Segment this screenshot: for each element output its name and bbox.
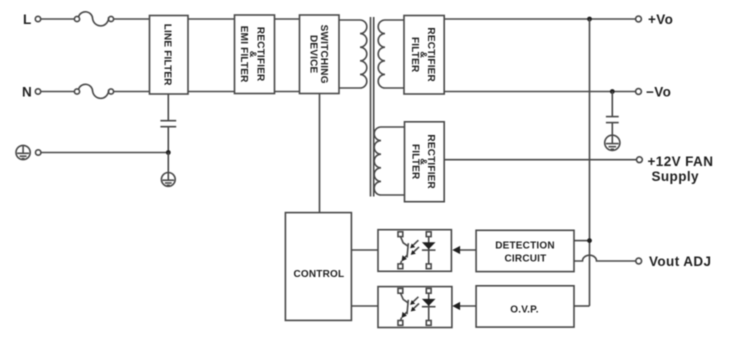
fuse F1 [74, 12, 113, 26]
earth symbol right [605, 135, 620, 150]
optocoupler U2 [378, 287, 452, 328]
svg-text:DETECTION: DETECTION [495, 241, 555, 252]
wire rect/EMI to switching top [275, 18, 300, 20]
wire line filter to rectifier/EMI bottom [188, 91, 235, 93]
block CONTROL [285, 213, 351, 321]
terminal earth [36, 150, 41, 155]
wire control to optocoupler 1 [351, 249, 378, 251]
wire -Vo rail [444, 91, 636, 93]
arrow detection to U1 [452, 246, 476, 254]
block RECTIFIER & FILTER lower [405, 122, 445, 202]
transformer T1 secondary winding 2 [374, 127, 404, 195]
wire line filter to rectifier/EMI top [188, 18, 235, 20]
capacitor C1 lead [167, 94, 169, 120]
vertical rail from +Vo to OVP [589, 19, 591, 306]
terminal N [35, 89, 40, 94]
terminal -Vo [636, 89, 642, 95]
terminal Vout ADJ [636, 258, 642, 264]
svg-text:CONTROL: CONTROL [293, 269, 344, 280]
block RECTIFIER & EMI FILTER [235, 15, 275, 94]
earth symbol under line filter [161, 173, 175, 187]
terminal L [35, 16, 40, 21]
transformer T1 core [371, 17, 374, 197]
block DETECTION CIRCUIT [476, 230, 574, 271]
terminal +12V [637, 157, 643, 163]
wire detection to vertical rail [574, 240, 590, 242]
wire F1 to line filter [114, 18, 150, 20]
svg-text:N: N [22, 85, 32, 100]
capacitor C2 lead [611, 92, 613, 117]
svg-text:+12V FAN: +12V FAN [648, 154, 714, 169]
wire Vout ADJ with hop [574, 255, 636, 261]
block SWITCHING DEVICE [300, 15, 340, 94]
svg-text:Supply: Supply [652, 169, 699, 184]
svg-text:CIRCUIT: CIRCUIT [505, 254, 547, 265]
wire C2 to earth [611, 123, 613, 136]
wire switching device to control [319, 94, 321, 213]
junction detection / rail [587, 238, 592, 243]
wire +12V rail [444, 159, 636, 161]
svg-text:+Vo: +Vo [648, 12, 673, 27]
block RECTIFIER & FILTER upper [404, 16, 444, 95]
block OVP [476, 286, 574, 327]
wire C1 to ground junction [167, 127, 169, 153]
terminal +Vo [636, 16, 642, 22]
wire rect/EMI to switching bottom [275, 91, 300, 93]
capacitor C2 [606, 117, 619, 123]
wire OVP to vertical rail [574, 305, 590, 307]
block LINE FILTER [150, 16, 189, 95]
arrow OVP to U2 [452, 302, 476, 310]
wire L to fuse F1 [41, 18, 75, 20]
wire junction down to earth symbol [167, 153, 169, 173]
junction +Vo rail / vertical rail [587, 17, 592, 22]
wire N to fuse F2 [41, 91, 75, 93]
wire earth to junction [41, 152, 168, 154]
svg-text:−Vo: −Vo [646, 85, 671, 100]
transformer T1 primary winding [339, 20, 367, 88]
svg-text:L: L [23, 12, 32, 27]
svg-text:Vout ADJ: Vout ADJ [649, 254, 711, 269]
svg-text:LINE FILTER: LINE FILTER [161, 24, 172, 87]
fuse F2 [74, 84, 113, 98]
junction ground node [166, 150, 171, 155]
svg-text:O.V.P.: O.V.P. [510, 304, 538, 315]
earth terminal symbol (left) [16, 145, 30, 159]
transformer T1 secondary winding 1 [378, 20, 404, 88]
wire control to optocoupler 2 [351, 305, 378, 307]
wire F2 to line filter [114, 91, 150, 93]
wire +Vo rail [444, 18, 636, 20]
capacitor C1 [160, 121, 176, 127]
junction -Vo / capacitor C2 [610, 89, 615, 94]
optocoupler U1 [378, 230, 451, 272]
